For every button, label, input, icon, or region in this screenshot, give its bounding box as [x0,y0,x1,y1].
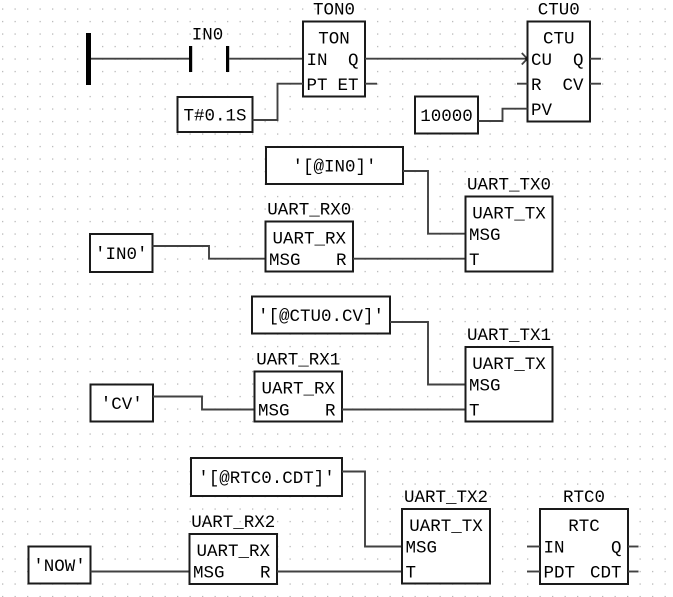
svg-text:UART_TX: UART_TX [472,205,546,225]
svg-text:RTC: RTC [568,517,600,537]
svg-text:CTU0: CTU0 [538,1,580,21]
svg-text:Q: Q [348,51,359,71]
svg-text:UART_TX: UART_TX [472,355,546,375]
function block UART_TX1 [466,326,553,422]
svg-text:IN0: IN0 [192,26,224,46]
wire '[@IN0]' to UART_TX0 MSG [403,171,466,234]
wire stub CTU0 CV [590,83,601,85]
svg-text:'NOW': 'NOW' [33,557,86,577]
wire UART_RX1 R to UART_TX1 T [342,409,466,411]
svg-text:MSG: MSG [193,564,225,584]
svg-text:ET: ET [338,76,359,96]
svg-text:TON: TON [318,30,350,50]
svg-text:Q: Q [573,51,584,71]
svg-text:R: R [325,402,336,422]
svg-text:UART_TX2: UART_TX2 [404,488,488,508]
svg-text:'CV': 'CV' [101,395,143,415]
wire stub CTU0 R [517,83,528,85]
literal '[@IN0]' [266,147,403,184]
wire stub CTU0 Q [590,58,601,60]
function block UART_RX0 [266,201,354,272]
wire TON0 Q to CTU0 CU [365,53,529,65]
svg-text:'[@CTU0.CV]': '[@CTU0.CV]' [258,307,384,327]
svg-text:IN: IN [544,539,565,559]
literal '[@CTU0.CV]' [252,297,390,334]
svg-text:RTC0: RTC0 [563,488,605,508]
wire 'IN0' to UART_RX0 MSG [153,246,266,259]
svg-text:PT: PT [307,76,328,96]
wire stub RTC0 IN [527,546,540,548]
function block UART_TX0 [466,176,553,272]
function block TON0 [303,1,365,97]
svg-text:UART_RX: UART_RX [273,230,347,250]
svg-text:10000: 10000 [420,107,473,127]
wire '[@RTC0.CDT]' to UART_TX2 MSG [342,472,402,547]
svg-text:UART_TX1: UART_TX1 [467,326,551,346]
function block UART_RX1 [255,351,343,422]
svg-text:PDT: PDT [544,564,576,584]
wire UART_RX2 R to UART_TX2 T [277,571,402,573]
svg-text:MSG: MSG [269,251,301,271]
svg-text:TON0: TON0 [313,1,355,21]
svg-text:R: R [260,564,271,584]
svg-text:MSG: MSG [469,377,501,397]
wire rail to contact IN0 [91,58,189,60]
svg-text:UART_RX: UART_RX [262,380,336,400]
literal '[@RTC0.CDT]' [191,458,342,496]
svg-text:UART_RX2: UART_RX2 [191,513,275,533]
wire 'NOW' to UART_RX2 MSG [91,571,190,573]
wire 10000 to CTU0 PV [478,109,528,121]
svg-text:CDT: CDT [590,564,622,584]
literal 10000 [415,97,478,134]
function block UART_RX2 [190,513,278,584]
contact IN0 [189,26,229,72]
wire 'CV' to UART_RX1 MSG [153,397,255,410]
function block CTU0 [528,1,591,122]
left power rail [86,33,91,85]
svg-text:MSG: MSG [258,402,290,422]
literal 'NOW' [29,547,91,584]
literal 'IN0' [90,234,153,272]
svg-text:'[@IN0]': '[@IN0]' [293,157,377,177]
svg-text:MSG: MSG [406,539,438,559]
svg-text:T#0.1S: T#0.1S [184,106,247,126]
svg-text:T: T [469,402,480,422]
wire stub TON0 ET [365,83,377,85]
svg-text:UART_RX: UART_RX [197,542,271,562]
svg-text:Q: Q [611,539,622,559]
svg-text:PV: PV [531,101,553,121]
function block RTC0 [540,488,628,584]
wire UART_RX0 R to UART_TX0 T [353,258,466,260]
wire stub RTC0 CDT [628,571,639,573]
wire '[@CTU0.CV]' to UART_TX1 MSG [390,322,466,385]
svg-text:IN: IN [307,51,328,71]
svg-text:MSG: MSG [469,226,501,246]
svg-text:UART_RX1: UART_RX1 [256,351,340,371]
wire contact IN0 to TON0 IN [229,58,303,60]
svg-text:'IN0': 'IN0' [95,245,148,265]
literal 'CV' [91,385,154,422]
svg-text:CTU: CTU [543,30,575,50]
svg-text:CU: CU [531,51,552,71]
wire T#0.1S to TON0 PT [253,84,304,120]
svg-text:UART_TX0: UART_TX0 [467,176,551,196]
wire stub RTC0 PDT [527,571,540,573]
svg-text:T: T [469,251,480,271]
svg-text:'[@RTC0.CDT]': '[@RTC0.CDT]' [198,469,335,489]
svg-text:R: R [336,251,347,271]
svg-text:UART_RX0: UART_RX0 [267,201,351,221]
literal T#0.1S [178,97,253,132]
svg-text:UART_TX: UART_TX [409,517,483,537]
svg-text:R: R [531,76,542,96]
function block UART_TX2 [402,488,490,584]
wire stub RTC0 Q [628,546,639,548]
svg-text:T: T [406,564,417,584]
svg-text:CV: CV [563,76,585,96]
